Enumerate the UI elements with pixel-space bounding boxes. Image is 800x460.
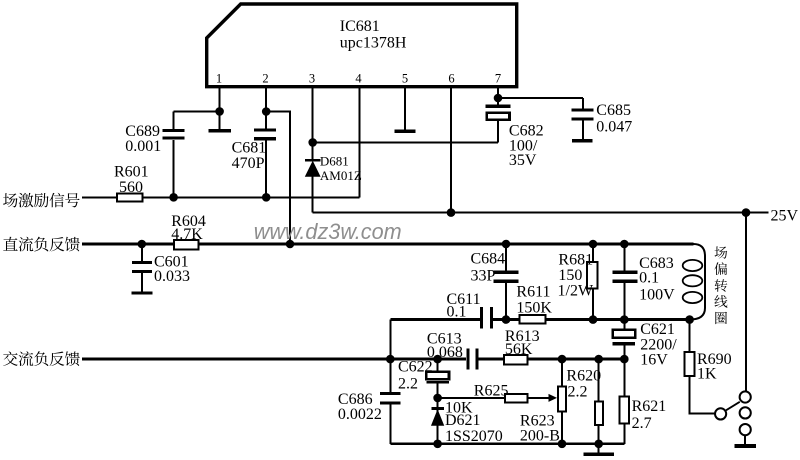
svg-text:0.033: 0.033 [154, 268, 190, 285]
node R681 top [589, 240, 598, 249]
node R681 bottom [589, 315, 598, 324]
wire pin2 junction to DC feedback line [266, 112, 290, 245]
node corner branch on AC line [386, 355, 395, 364]
label 直流负反馈 [3, 237, 80, 252]
label 场激励信号 [3, 193, 80, 208]
svg-text:4: 4 [355, 72, 362, 86]
node D681 cathode on pin3 wire [308, 138, 317, 147]
svg-text:1SS2070: 1SS2070 [445, 428, 503, 445]
capacitor C683 [612, 244, 675, 320]
svg-text:R681: R681 [558, 251, 593, 268]
node R625 junction [433, 394, 442, 403]
wire DC negative feedback line [82, 243, 693, 246]
node R623 top on AC line [558, 355, 567, 364]
svg-text:2: 2 [262, 72, 268, 86]
node C622 top on AC line [433, 355, 442, 364]
node R620 top on AC line [594, 355, 603, 364]
svg-text:0.0022: 0.0022 [338, 406, 382, 423]
node 25V rail to switch branch [742, 208, 751, 217]
resistor R613 [504, 328, 540, 365]
label 交流负反馈 [3, 351, 80, 366]
node C683 bottom [620, 315, 629, 324]
node C601 top [138, 240, 147, 249]
ground below switch [734, 435, 756, 446]
svg-text:R625: R625 [474, 382, 509, 399]
svg-text:25V: 25V [771, 208, 799, 225]
svg-text:150: 150 [558, 267, 582, 284]
pin 7 [495, 72, 501, 105]
wire corner joining AC feedback line [389, 320, 391, 360]
resistor R681 [558, 244, 598, 320]
pin 2 [262, 72, 268, 129]
svg-text:2.7: 2.7 [632, 415, 652, 432]
resistor R621 [619, 359, 666, 444]
svg-text:100V: 100V [639, 286, 675, 303]
svg-text:R620: R620 [566, 367, 601, 384]
deflection coil (field yoke) [683, 244, 705, 320]
svg-text:www.dz3w.com: www.dz3w.com [254, 219, 402, 244]
capacitor C684 [471, 244, 519, 320]
wire bottom return line [390, 443, 624, 445]
ground bar under pin 5 [395, 129, 416, 132]
svg-text:470P: 470P [232, 155, 265, 172]
diode D621 [431, 409, 502, 445]
svg-text:1K: 1K [697, 366, 717, 383]
node R623 bottom [558, 440, 567, 449]
pin 5 [402, 72, 408, 130]
ground bar under pin 1 [209, 111, 231, 130]
svg-text:R611: R611 [516, 283, 550, 300]
svg-text:6: 6 [448, 72, 454, 86]
svg-text:10K: 10K [445, 399, 473, 416]
svg-text:upc1378H: upc1378H [340, 34, 407, 51]
potentiometer R623 [520, 359, 566, 444]
capacitor C689 [125, 111, 184, 197]
svg-text:16V: 16V [640, 351, 668, 368]
svg-text:1: 1 [216, 72, 222, 86]
svg-text:D681: D681 [320, 153, 349, 168]
ground bar under C685 [572, 139, 593, 142]
wire 25V rail down to switch [745, 213, 747, 392]
svg-text:35V: 35V [509, 152, 537, 169]
capacitor C685 [572, 98, 633, 139]
capacitor C686 [338, 359, 400, 444]
pin 6 [448, 72, 454, 213]
label 场偏转线圈 [714, 246, 727, 324]
node C681 bottom on drive line [262, 193, 271, 202]
wire pin1 to C689 [174, 110, 220, 112]
svg-text:3: 3 [309, 72, 315, 86]
node pin7 junction [494, 94, 503, 103]
svg-text:7: 7 [495, 72, 501, 86]
pin 1 [216, 72, 222, 112]
pin 4 [355, 72, 362, 198]
svg-text:560: 560 [119, 179, 143, 196]
wire +25V rail [313, 212, 769, 214]
ground below bottom line [584, 444, 614, 454]
resistor R690 [685, 320, 732, 414]
svg-text:1/2W: 1/2W [558, 283, 594, 300]
svg-text:2.2: 2.2 [568, 384, 588, 401]
svg-text:33P: 33P [471, 267, 496, 284]
node pin2 branch on DC line [286, 240, 295, 249]
node D621 anode on bottom line [433, 440, 442, 449]
wire AC branch upper line (C611/R611 line) [390, 318, 480, 321]
pin 3 [309, 72, 315, 143]
svg-text:200-B: 200-B [520, 427, 560, 444]
svg-text:56K: 56K [505, 341, 533, 358]
diode D681 [305, 142, 362, 212]
svg-text:R621: R621 [632, 398, 667, 415]
capacitor C613 (series) [427, 331, 477, 370]
svg-text:AM01Z: AM01Z [320, 168, 362, 183]
svg-text:IC681: IC681 [340, 18, 380, 35]
svg-text:C685: C685 [596, 102, 631, 119]
svg-text:0.001: 0.001 [125, 138, 161, 155]
resistor R625 with wiper arrow [438, 382, 557, 416]
capacitor C682 (electrolytic) [486, 105, 544, 169]
svg-text:C681: C681 [232, 139, 267, 156]
resistor R604 [171, 213, 206, 249]
ground bar under C601 [131, 291, 152, 294]
wire field drive signal line to pin 4 [82, 196, 360, 198]
wire pin7 to C685 [498, 97, 583, 99]
capacitor C681 [232, 130, 277, 197]
resistor R601 [114, 164, 149, 202]
capacitor C621 (electrolytic) [613, 320, 678, 369]
wire AC negative feedback line [82, 358, 466, 361]
svg-text:R601: R601 [114, 164, 149, 181]
op-amp IC681 body [207, 4, 517, 87]
node C621 bottom on AC line [620, 355, 629, 364]
svg-text:0.1: 0.1 [447, 304, 467, 321]
node pin1 junction [215, 107, 224, 116]
svg-text:5: 5 [402, 72, 408, 86]
node pin6 on 25V rail [447, 208, 456, 217]
switch (service switch) [715, 391, 751, 435]
capacitor C611 (series) [447, 291, 492, 329]
resistor R620 [566, 359, 602, 444]
resistor R611 [516, 283, 552, 323]
capacitor C601 [132, 244, 190, 291]
node R620 bottom [594, 440, 603, 449]
node C689 bottom on drive line [169, 193, 178, 202]
node C683 top [620, 240, 629, 249]
node pin2 junction [262, 107, 271, 116]
svg-text:4.7K: 4.7K [171, 226, 203, 243]
node C684 top [502, 240, 511, 249]
node coil bottom junction [685, 315, 694, 324]
svg-text:2.2: 2.2 [398, 376, 418, 393]
svg-text:C622: C622 [398, 359, 433, 376]
node C684 bottom [502, 315, 511, 324]
svg-text:0.1: 0.1 [639, 269, 659, 286]
svg-text:0.047: 0.047 [596, 119, 632, 136]
capacitor C622 (electrolytic) [398, 359, 449, 444]
svg-text:150K: 150K [516, 299, 552, 316]
wire bootstrap: D681 cathode to C682 bottom [313, 141, 498, 143]
svg-text:C684: C684 [471, 250, 506, 267]
